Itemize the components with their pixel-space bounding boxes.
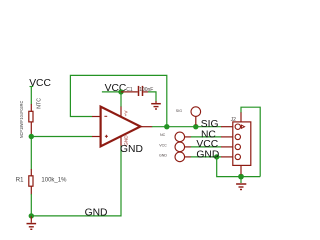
svg-text:VCC: VCC — [159, 143, 167, 147]
resistor R1 body — [29, 176, 33, 186]
svg-text:VCC: VCC — [29, 78, 51, 89]
connector J2 pin 1 circle — [235, 124, 240, 129]
resistor R1 bottom pin — [30, 186, 32, 195]
capacitor C1 plates — [139, 86, 143, 96]
testpoint SIG circle — [191, 107, 201, 117]
wire feedback loop — [70, 75, 166, 126]
testpoint VCC circle — [175, 142, 185, 152]
svg-text:GND: GND — [120, 144, 143, 155]
connector pin 1 stub — [221, 126, 233, 128]
connector J2 body — [233, 122, 251, 165]
connector J2 pin 4 circle — [235, 154, 240, 159]
pin stub - input — [92, 116, 101, 118]
wire GND row — [191, 156, 222, 158]
svg-text:GND: GND — [196, 149, 219, 160]
op-amp plus sign — [105, 135, 108, 138]
node junction SIG tap — [193, 124, 198, 129]
svg-text:GND: GND — [85, 208, 108, 219]
connector pin 2 stub — [221, 136, 233, 138]
wire VCC to thermistor — [30, 86, 32, 104]
wire output to connector — [152, 126, 221, 128]
ground symbol (under C1) — [151, 101, 161, 109]
connector J2 pin 1 arrow — [241, 125, 244, 128]
connector pin 3 stub — [221, 146, 233, 148]
resistor R1 top pin — [30, 169, 32, 177]
svg-text:SIG: SIG — [176, 109, 182, 113]
wire VCC flag to node — [102, 91, 121, 93]
svg-text:100k_1%: 100k_1% — [41, 178, 67, 184]
wire GND row down to ground bus — [217, 157, 261, 177]
svg-text:NC: NC — [160, 133, 166, 137]
ground symbol (bottom right) — [236, 177, 246, 190]
svg-text:+V: +V — [124, 110, 129, 117]
connector top shield pin stub — [240, 112, 242, 122]
ground symbol (bottom left) — [27, 216, 37, 229]
connector J2 pin 2 circle — [235, 134, 240, 139]
wire VCC row — [191, 146, 222, 148]
testpoint GND circle — [175, 152, 185, 162]
op-amp output pin stub — [140, 126, 152, 128]
wire shield loop right side — [241, 107, 260, 176]
capacitor C1 left lead — [121, 91, 138, 93]
capacitor C1 right lead — [143, 91, 148, 93]
wire NC row — [191, 136, 222, 138]
svg-text:SIG: SIG — [201, 119, 219, 130]
node junction thermistor/R1/op-amp+ — [29, 134, 34, 139]
op-amp +V pin stub — [120, 107, 122, 117]
node junction feedback tap — [164, 124, 169, 129]
wire C1 to ground — [148, 92, 156, 102]
op-amp minus sign — [104, 115, 107, 117]
node junction GND row — [214, 154, 219, 159]
testpoint VCC pin stub — [185, 146, 191, 148]
wire op-amp + input — [31, 136, 92, 138]
thermistor RT1 body — [29, 111, 33, 122]
power flag VCC (left) — [29, 78, 51, 89]
svg-text:R1: R1 — [16, 178, 24, 184]
pin stub + input — [92, 136, 101, 138]
testpoint NC circle — [175, 132, 185, 142]
thermistor RT1 bottom pin — [30, 122, 32, 135]
op-amp GND pin stub — [120, 136, 122, 146]
node junction VCC/C1/+V — [118, 89, 123, 94]
wire junction to R1 — [30, 137, 32, 170]
wire R1 to ground node — [30, 194, 32, 216]
svg-text:NCP18WF104F03RC: NCP18WF104F03RC — [19, 101, 24, 139]
connector J2 pin 3 circle — [235, 144, 240, 149]
op-amp U1 triangle — [101, 107, 141, 147]
svg-text:NTC: NTC — [37, 98, 43, 109]
connector bottom shield pin stub — [240, 165, 242, 174]
node junction connector shield ground — [238, 174, 244, 180]
testpoint SIG pin stub — [195, 117, 197, 125]
testpoint NC pin stub — [185, 136, 191, 138]
testpoint GND pin stub — [185, 156, 191, 158]
connector pin 4 stub — [221, 156, 233, 158]
svg-text:GND: GND — [159, 154, 167, 158]
node junction ground (bottom left) — [29, 213, 34, 218]
wire VCC node to op-amp +V — [120, 92, 122, 107]
svg-text:C1: C1 — [126, 87, 133, 93]
wire bottom ground bus — [31, 146, 121, 216]
thermistor RT1 NCP18WF104F03RC top pin — [30, 104, 32, 112]
